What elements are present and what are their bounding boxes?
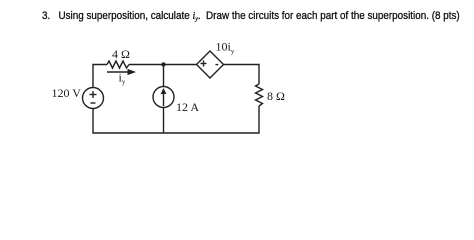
svg-text:iy: iy [119, 71, 126, 87]
svg-text:120 V: 120 V [52, 86, 82, 100]
polarity - inside diamond [216, 64, 219, 66]
wire: middle branch upper [163, 65, 165, 87]
wire: diamond to top-right corner and right branch upper [224, 65, 260, 85]
wire: right branch lower, bottom rail, left branch lower [93, 106, 259, 133]
svg-text:4 Ω: 4 Ω [112, 47, 130, 61]
resistor R1 4-ohm zigzag [107, 61, 129, 68]
dependent source U1 diamond 10iy [197, 51, 224, 78]
polarity + inside V1 [90, 94, 97, 96]
voltage source V1 circle [83, 88, 104, 109]
problem title text [42, 10, 460, 23]
current arrow iy under resistor [107, 71, 129, 73]
node A junction dot [161, 62, 165, 66]
svg-text:12 A: 12 A [176, 100, 199, 114]
current source I1 circle [153, 87, 174, 108]
wire: top-left segment from voltage source up and to resistor R1 [93, 65, 107, 88]
polarity - inside V1 [91, 102, 96, 104]
polarity + inside diamond [201, 63, 207, 65]
wire: middle branch lower [163, 108, 165, 134]
wire: resistor R1 to node A [129, 64, 197, 66]
arrow inside current source [163, 93, 165, 107]
resistor R2 8-ohm vertical zigzag [256, 84, 263, 106]
svg-text:10iy: 10iy [216, 40, 235, 56]
svg-text:8 Ω: 8 Ω [267, 89, 285, 103]
